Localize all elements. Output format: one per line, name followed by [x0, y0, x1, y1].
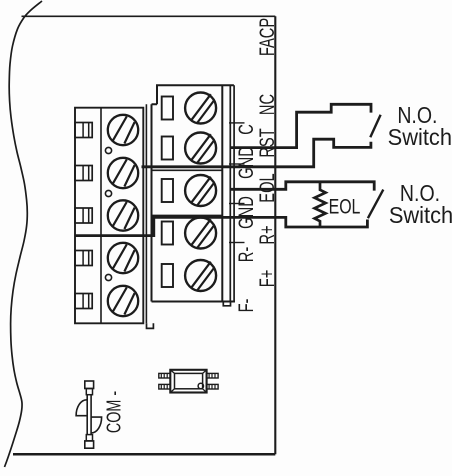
- wire EOL terminal to switch SW2 upper contact / EOL resistor top rail: [231, 182, 374, 191]
- label EOL (terminal): [255, 173, 278, 202]
- svg-text:Switch: Switch: [388, 125, 452, 151]
- optocoupler U1 right pin upper: [207, 373, 219, 378]
- label separator R+/F+: [229, 242, 245, 244]
- TB2 divider 1: [152, 169, 223, 171]
- connector J1 (COM-) body: [85, 381, 94, 448]
- label separator EOL/R+: [229, 203, 245, 205]
- label separator RST/EOL: [229, 163, 245, 165]
- wire GND to switch SW1 lower contact: [142, 139, 371, 167]
- TB1 wire clamp 1: [75, 123, 92, 138]
- terminal block TB1 (left, rear) body: [75, 104, 146, 323]
- TB2 screw terminal 5 (F+): [185, 260, 216, 291]
- svg-text:R-: R-: [234, 247, 257, 262]
- TB2 screw terminal 4 (R+): [185, 218, 216, 249]
- label EOL (resistor value): [329, 195, 361, 219]
- optocoupler U1 pin 1 dot: [198, 383, 203, 388]
- TB1 wire clamp 5: [75, 294, 92, 309]
- svg-text:GND: GND: [234, 146, 257, 179]
- label F+: [255, 270, 278, 288]
- panel torn left edge: [5, 1, 43, 467]
- panel bottom edge: [13, 453, 275, 456]
- label N.O. (SW1): [397, 102, 437, 128]
- TB1 index hole 2: [105, 190, 111, 196]
- svg-text:EOL: EOL: [329, 195, 361, 219]
- label R-: [234, 247, 257, 262]
- TB1 screw terminal 4 (R-): [108, 243, 138, 273]
- optocoupler U1 right pin lower: [207, 384, 219, 389]
- TB1 mounting foot: [147, 323, 154, 328]
- label FACP: [255, 18, 278, 56]
- label Switch (SW2): [389, 202, 452, 228]
- TB2 divider 2: [152, 214, 223, 216]
- TB2 wire clamp 3: [162, 179, 173, 202]
- TB2 wire clamp 2: [162, 137, 173, 160]
- TB1 wire clamp 2: [75, 166, 92, 181]
- terminal block TB2 (right, front) body: [152, 85, 236, 301]
- label NC: [255, 94, 278, 115]
- wire RST terminal to switch SW1 upper contact: [231, 104, 371, 147]
- svg-text:NC: NC: [255, 94, 278, 115]
- panel right edge (FACP enclosure): [274, 16, 276, 454]
- label separator NC/RST: [229, 122, 245, 124]
- TB2 screw terminal 2 (RST): [185, 133, 216, 164]
- label C: [234, 124, 257, 135]
- svg-text:R+: R+: [255, 225, 278, 244]
- TB2 wire clamp 5: [162, 264, 173, 287]
- TB1 screw terminal 1 (C): [108, 115, 138, 145]
- label N.O. (SW2): [400, 180, 440, 206]
- TB2 mounting foot: [223, 302, 230, 306]
- TB1 index hole 1: [105, 147, 111, 153]
- TB1 screw terminal 3 (GND): [108, 200, 138, 230]
- svg-text:F+: F+: [255, 270, 278, 288]
- svg-text:COM -: COM -: [102, 391, 125, 433]
- label F-: [234, 299, 257, 313]
- label Switch (SW1): [388, 125, 452, 151]
- switch SW1 blade (N.O.): [370, 115, 380, 137]
- svg-text:C: C: [234, 124, 257, 135]
- label GND (row 2): [234, 146, 257, 179]
- connector J1 left hook: [76, 400, 87, 416]
- label RST: [255, 128, 278, 157]
- TB1 wire clamp 3: [75, 208, 92, 223]
- svg-text:GND: GND: [234, 196, 257, 229]
- svg-text:F-: F-: [234, 299, 257, 313]
- TB2 screw terminal 3 (EOL): [185, 175, 216, 206]
- TB2 screw terminal 1 (NC): [185, 93, 216, 124]
- svg-text:Switch: Switch: [389, 202, 452, 228]
- svg-text:FACP: FACP: [255, 18, 278, 56]
- label COM -: [102, 391, 125, 433]
- TB1 wire clamp 4: [75, 251, 92, 266]
- TB2 wire clamp 4: [162, 222, 173, 245]
- wire GND to switch SW2 lower contact / EOL resistor bottom rail: [75, 217, 367, 235]
- label GND (row 3): [234, 196, 257, 229]
- optocoupler U1 left pin upper: [159, 373, 171, 378]
- switch SW2 blade (N.O.): [368, 190, 383, 219]
- panel top edge: [22, 15, 276, 17]
- optocoupler U1 left pin lower: [159, 384, 171, 389]
- optocoupler U1 body: [170, 370, 206, 393]
- label R+: [255, 225, 278, 244]
- connector J1 right hook: [91, 417, 101, 433]
- svg-text:RST: RST: [255, 128, 278, 157]
- resistor EOL: [315, 182, 326, 227]
- TB1 index hole 3: [105, 274, 111, 280]
- TB1 screw terminal 5 (F-): [108, 286, 138, 316]
- TB1 screw terminal 2 (GND): [108, 158, 138, 188]
- TB2 wire clamp 1: [162, 97, 173, 120]
